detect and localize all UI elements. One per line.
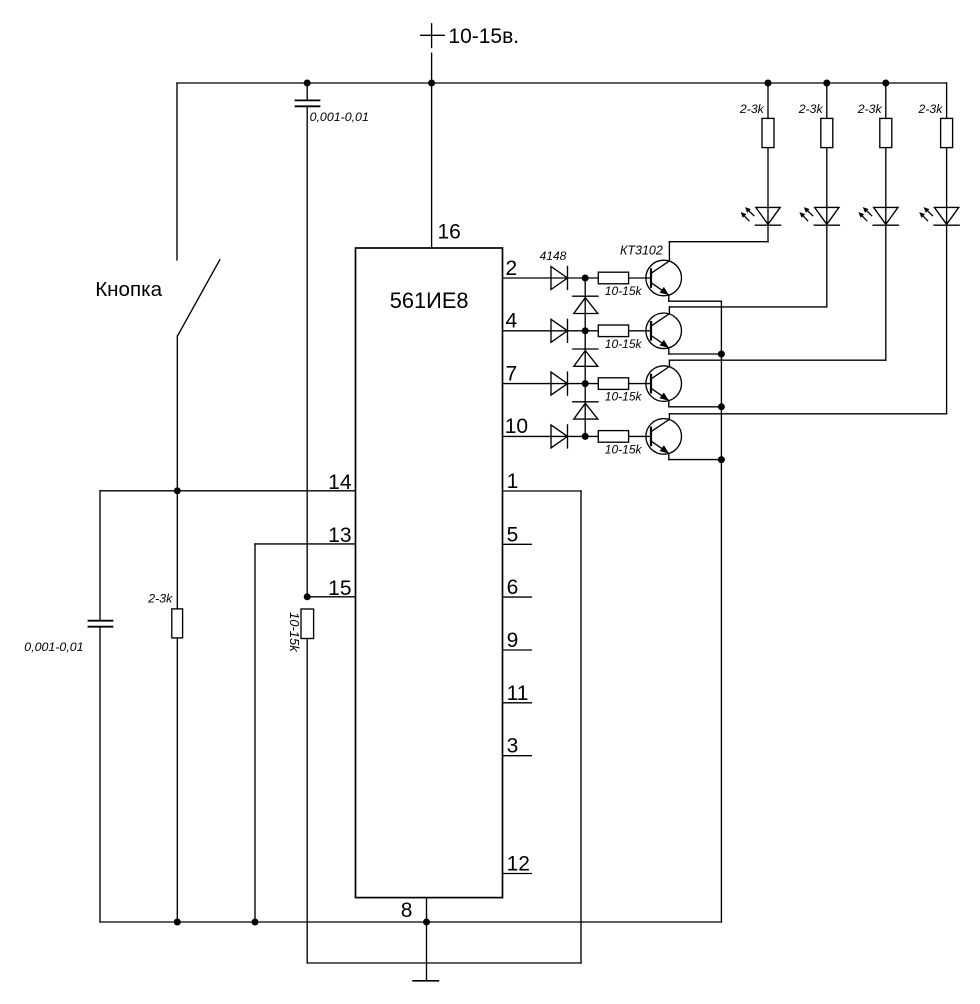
svg-text:10-15k: 10-15k xyxy=(605,337,643,351)
junction node rail/pin16 xyxy=(428,80,435,87)
diode VD1 4148 xyxy=(551,267,568,290)
junction node bus/Q2e xyxy=(718,351,725,358)
junction node bus/Q3e xyxy=(718,403,725,410)
wire Q2 emitter xyxy=(669,348,722,354)
wire R8 to LED2 xyxy=(826,148,828,226)
wire pin1 vertical xyxy=(580,491,582,963)
wire pin14 corner down to C2 xyxy=(99,491,101,621)
wire rail to R7 xyxy=(767,83,769,118)
wire LED3 cathode xyxy=(885,225,887,360)
wire rail to switch top contact xyxy=(176,83,178,260)
resistor R8 2-3k xyxy=(821,118,833,147)
wire pin 14 xyxy=(100,490,356,492)
svg-text:14: 14 xyxy=(328,471,352,494)
wire Q3 collector xyxy=(669,360,885,366)
LED HL1 xyxy=(755,207,780,225)
junction node ground/pin13 xyxy=(252,919,259,926)
svg-text:1: 1 xyxy=(507,470,519,493)
junction node switch/pin14 xyxy=(174,487,181,494)
wire pin 8 xyxy=(426,898,428,981)
wire pin13 vertical to ground line xyxy=(254,544,256,922)
junction node row4 xyxy=(582,433,589,440)
resistor R10 2-3k xyxy=(941,118,953,147)
svg-text:0,001-0,01: 0,001-0,01 xyxy=(310,110,369,124)
wire LED1 cathode xyxy=(767,225,769,242)
wire Q4 collector xyxy=(669,414,946,420)
wire emitter bus to ground line xyxy=(720,301,722,922)
wire R7 to LED1 xyxy=(767,148,769,226)
svg-text:Кнопка: Кнопка xyxy=(95,278,162,301)
svg-text:0,001-0,01: 0,001-0,01 xyxy=(24,640,83,654)
diode VD6 vertical xyxy=(573,349,598,366)
wire C2 to ground line xyxy=(99,627,101,922)
wire switch bottom to resistor xyxy=(176,336,178,609)
svg-text:6: 6 xyxy=(507,576,519,599)
op IC U1 561ИЕ8 box xyxy=(356,248,503,898)
resistor R3 10-15k xyxy=(598,272,628,284)
resistor R4 10-15k xyxy=(598,325,628,337)
wire pin 15 xyxy=(307,596,355,598)
switch SB1 blade xyxy=(178,260,220,336)
wire rail to C1 xyxy=(306,83,308,100)
LED HL3 xyxy=(873,207,898,225)
junction node row2 xyxy=(582,327,589,334)
capacitor C2 0,001-0,01 xyxy=(89,621,113,627)
wire pin 12 xyxy=(503,873,532,875)
svg-text:16: 16 xyxy=(438,221,461,244)
wire pin 6 xyxy=(503,596,532,598)
wire R10 to LED4 xyxy=(946,148,948,226)
junction node row1 xyxy=(582,275,589,282)
wire R1 to ground line xyxy=(176,638,178,922)
svg-text:4: 4 xyxy=(506,310,518,333)
capacitor C1 0,001-0,01 xyxy=(296,100,320,106)
diode VD4 4148 xyxy=(551,425,568,448)
diode VD3 4148 xyxy=(551,372,568,395)
svg-text:3: 3 xyxy=(507,735,519,758)
diode VD7 vertical xyxy=(573,402,598,419)
wire pin 11 xyxy=(503,702,532,704)
resistor R6 10-15k xyxy=(598,431,628,443)
svg-text:13: 13 xyxy=(328,524,351,547)
svg-text:4148: 4148 xyxy=(540,249,567,263)
wire Q2 collector xyxy=(669,307,826,314)
svg-text:10-15в.: 10-15в. xyxy=(448,25,519,48)
wire R6 to Q4 base xyxy=(629,435,651,437)
resistor R7 2-3k xyxy=(762,118,774,147)
wire pin 16 xyxy=(431,83,433,248)
svg-text:8: 8 xyxy=(401,899,413,922)
svg-text:10-15k: 10-15k xyxy=(287,612,302,653)
wire Q3 emitter xyxy=(669,401,722,407)
junction node ground/R1 xyxy=(174,919,181,926)
resistor R9 2-3k xyxy=(880,118,892,147)
wire pin 13 xyxy=(255,543,356,545)
resistor R5 10-15k xyxy=(598,378,628,390)
junction node rail/R-led1 xyxy=(765,80,772,87)
wire pin 9 xyxy=(503,649,532,651)
svg-text:7: 7 xyxy=(506,362,518,385)
wire Q4 emitter xyxy=(669,453,722,459)
transistor Q4 KT3102 xyxy=(646,419,682,455)
wire rail to R9 xyxy=(885,83,887,118)
transistor Q1 KT3102 xyxy=(646,260,682,296)
LED HL2 arrows xyxy=(799,207,812,221)
svg-text:10-15k: 10-15k xyxy=(605,442,643,456)
wire pin 7 to base resistor xyxy=(503,383,599,385)
wire rail to R8 xyxy=(826,83,828,118)
svg-text:10: 10 xyxy=(505,415,528,438)
svg-text:12: 12 xyxy=(507,853,530,876)
svg-text:2-3k: 2-3k xyxy=(147,592,173,606)
wire Q1 emitter xyxy=(669,295,722,301)
wire R9 to LED3 xyxy=(885,148,887,226)
wire C1 to pin15 node xyxy=(306,106,308,597)
wire LED2 cathode xyxy=(826,225,828,307)
svg-text:10-15k: 10-15k xyxy=(605,284,643,298)
svg-text:5: 5 xyxy=(507,523,519,546)
svg-text:2-3k: 2-3k xyxy=(918,102,944,116)
diode VD2 4148 xyxy=(551,319,568,342)
svg-text:2-3k: 2-3k xyxy=(798,102,824,116)
svg-text:561ИЕ8: 561ИЕ8 xyxy=(390,288,469,313)
wire power terminal to rail xyxy=(431,53,433,83)
wire R5 to Q3 base xyxy=(629,383,651,385)
wire +V rail xyxy=(177,82,947,84)
junction node rail/R-led3 xyxy=(882,80,889,87)
svg-text:9: 9 xyxy=(507,629,519,652)
svg-text:2: 2 xyxy=(506,257,518,280)
power terminal + xyxy=(421,24,445,48)
wire pin 1 xyxy=(503,490,582,492)
wire rail to R10 xyxy=(946,83,948,118)
junction node bus/Q4e xyxy=(718,456,725,463)
resistor R1 2-3k xyxy=(172,609,183,638)
LED HL2 xyxy=(814,207,839,225)
junction node row3 xyxy=(582,380,589,387)
wire pin 4 to base resistor xyxy=(503,330,599,332)
svg-text:2-3k: 2-3k xyxy=(739,102,765,116)
junction node ground/pin8 xyxy=(423,919,430,926)
wire Q1 collector xyxy=(669,242,768,261)
svg-text:КТ3102: КТ3102 xyxy=(620,243,663,257)
svg-text:10-15k: 10-15k xyxy=(605,390,643,404)
wire pin 2 to base resistor xyxy=(503,277,599,279)
LED HL4 xyxy=(934,207,959,225)
resistor R2 10-15k (pin15) xyxy=(301,609,314,639)
svg-text:11: 11 xyxy=(507,682,529,705)
transistor Q3 KT3102 xyxy=(646,366,682,402)
transistor Q2 KT3102 xyxy=(646,313,682,349)
wire pin 10 to base resistor xyxy=(503,435,599,437)
svg-text:2-3k: 2-3k xyxy=(857,102,883,116)
wire ground line xyxy=(100,921,721,923)
diode VD5 vertical xyxy=(573,296,598,313)
wire R3 to Q1 base xyxy=(629,277,651,279)
ground symbol xyxy=(413,980,439,982)
wire pin 3 xyxy=(503,755,532,757)
junction node rail/C1 xyxy=(304,80,311,87)
wire diode bus xyxy=(584,278,586,436)
LED HL3 arrows xyxy=(858,207,871,221)
wire R4 to Q2 base xyxy=(629,330,651,332)
svg-text:15: 15 xyxy=(328,577,351,600)
wire link R2 to pin1 xyxy=(307,962,581,964)
wire pin 5 xyxy=(503,543,532,545)
junction node pin15 xyxy=(304,593,311,600)
LED HL4 arrows xyxy=(919,207,932,221)
wire LED4 cathode xyxy=(946,225,948,414)
wire R2 bottom down xyxy=(306,639,308,964)
LED HL1 arrows xyxy=(741,207,754,221)
junction node rail/R-led2 xyxy=(823,80,830,87)
